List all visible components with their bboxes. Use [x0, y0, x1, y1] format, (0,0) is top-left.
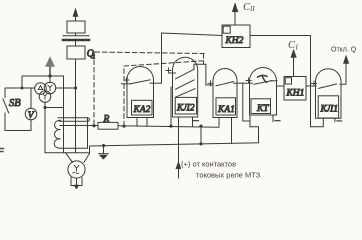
- svg-text:SB: SB: [9, 98, 21, 109]
- field winding coil (3 loops): [54, 120, 60, 148]
- wire y152.8: [45, 152, 90, 154]
- ground: [102, 144, 105, 147]
- wire: transformer right to main line: [56, 87, 76, 89]
- generator G: [68, 161, 85, 178]
- generator bottom box: [71, 177, 82, 185]
- node dot: [43, 106, 46, 109]
- dashed linkage from Q1 horizontal: [95, 52, 204, 54]
- (+) feed arrow on KL2 left terminal: [176, 162, 181, 169]
- signal C_I arrow: [293, 57, 295, 77]
- relay KT: [243, 68, 280, 143]
- indication relay KH1: [284, 77, 316, 101]
- voltmeter V: [30, 88, 32, 108]
- wire: horizontal y76: [22, 75, 64, 77]
- svg-text:КЛ2: КЛ2: [176, 104, 195, 114]
- indication relay KH2: [162, 25, 311, 127]
- svg-text:КА1: КА1: [217, 105, 235, 115]
- dashed box to KA2 contact: [124, 54, 204, 126]
- pushbutton SB loop: [5, 88, 35, 98]
- node: dashed end dot on R line: [92, 124, 95, 127]
- svg-text:КЛ1: КЛ1: [320, 105, 339, 115]
- svg-text:КТ: КТ: [256, 104, 269, 114]
- resistor R: [98, 122, 118, 129]
- wire: transformer bottom down: [44, 102, 46, 153]
- wire: feeder to system with arrow: [73, 9, 78, 153]
- bus left end down to generator: [89, 146, 91, 153]
- junction dots lower middle: [199, 125, 202, 128]
- svg-text:КН2: КН2: [225, 36, 244, 46]
- wire KA2 out up to KH2 row: [161, 33, 163, 83]
- svg-text:Откл. Q: Откл. Q: [331, 47, 357, 54]
- hairpin loop 1: [58, 118, 89, 122]
- wire from arrow into transformer: [49, 76, 51, 83]
- relay KL2: [166, 57, 213, 178]
- relay KA1: [208, 69, 243, 144]
- transformer T (3-winding): [35, 82, 56, 102]
- svg-text:II: II: [249, 5, 255, 13]
- line A (R output): [118, 126, 219, 127]
- wire: h y107.5: [45, 107, 64, 109]
- wire: coil bottom link: [61, 118, 88, 149]
- scan mark left edge: [0, 149, 4, 152]
- wire to R: [60, 125, 98, 127]
- relay KA2: [122, 67, 162, 127]
- busbar thick: [63, 39, 89, 42]
- busbar thin: [63, 35, 89, 37]
- wire: aux supply arrow (gray): [46, 57, 55, 76]
- negative bus: [90, 143, 259, 146]
- svg-text:R: R: [103, 115, 110, 125]
- node: dashed end dot on line A: [122, 125, 125, 128]
- signal C_II arrow: [234, 12, 236, 26]
- relay KL1: [311, 69, 347, 127]
- svg-text:КА2: КА2: [133, 105, 151, 115]
- wire: v x63.5 down: [63, 76, 65, 153]
- circuit breaker Q1: [67, 46, 85, 59]
- svg-text:КН1: КН1: [286, 89, 305, 99]
- wire KT out to KH1: [277, 85, 284, 87]
- trip arrow Otkl Q: [345, 62, 347, 84]
- svg-text:токовых реле МТЗ: токовых реле МТЗ: [196, 171, 261, 180]
- wire: v x22 to SB line: [21, 76, 23, 88]
- breaker upper box: [67, 21, 85, 33]
- generator leads trapezoid: [66, 153, 90, 163]
- wire KA1 out down to KT: [243, 83, 250, 121]
- svg-text:(+) от контактов: (+) от контактов: [181, 160, 236, 169]
- dashed vertical at x=94: [93, 53, 95, 126]
- node dot: [48, 74, 51, 77]
